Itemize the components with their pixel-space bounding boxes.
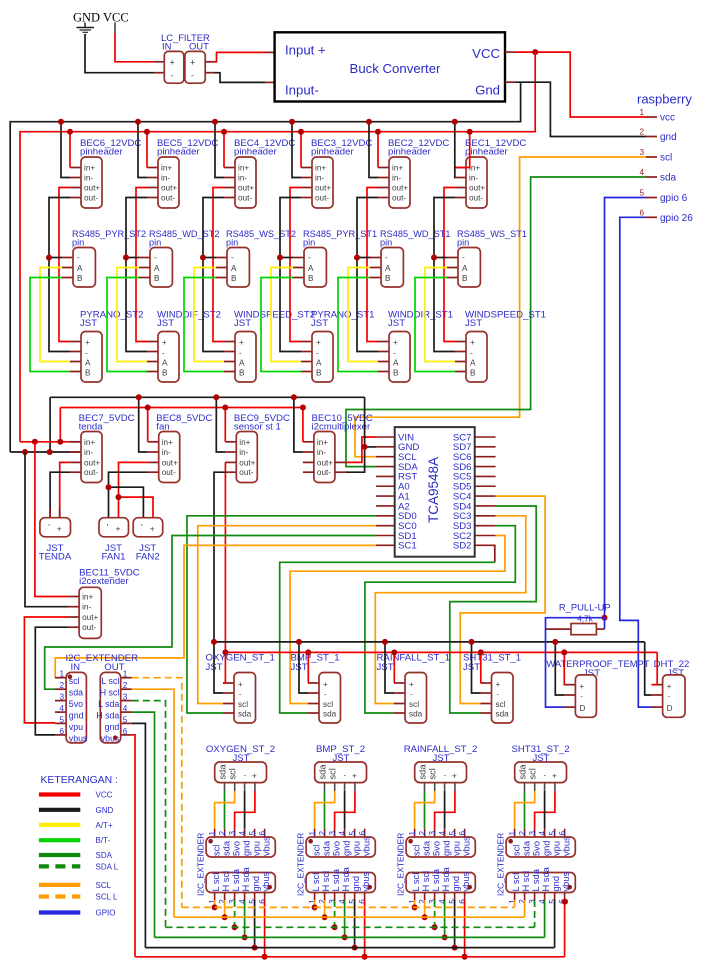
svg-text:vpu: vpu — [69, 722, 83, 732]
svg-text:H sda: H sda — [441, 866, 451, 891]
wire OUT2 pin 6 to bus — [364, 900, 366, 957]
TCA pin A2 — [376, 505, 395, 507]
wire BEC9 out+ down to ST1 red rail — [224, 462, 226, 652]
TCA pin SD0 — [376, 515, 395, 517]
svg-text:Gnd: Gnd — [475, 83, 500, 98]
svg-text:5: 5 — [348, 831, 357, 836]
svg-text:6: 6 — [558, 831, 567, 836]
IN1 pin 4 stub — [244, 829, 246, 837]
wire SHT31_ST_2 - black to IN4 pin4 gnd — [544, 791, 546, 829]
svg-text:B: B — [239, 368, 245, 377]
black rail ST1 — [214, 641, 645, 643]
svg-text:out-: out- — [84, 468, 98, 477]
svg-text:pin: pin — [226, 238, 238, 248]
wire B (green) RS485_WS_ST2 to JST B — [184, 278, 224, 372]
wire OUT1 pin 5 to bus — [254, 900, 256, 948]
OUT4 pin 4 stub — [544, 893, 546, 902]
wire RAINFALL_ST_2 scl orange to IN3 pin1 — [415, 791, 435, 829]
wire OXYGEN_ST_2 + red to IN1 pin3 5vo — [235, 791, 255, 829]
svg-text:pinheader: pinheader — [311, 147, 354, 158]
wire out- BEC3_12VDC to RS485 - and JST - — [280, 198, 301, 352]
svg-text:H sda: H sda — [341, 866, 351, 891]
OUT3 pin 2 stub — [424, 893, 426, 902]
svg-text:SD2: SD2 — [453, 541, 472, 552]
wire far-left red to BEC7 in+ — [20, 441, 70, 443]
svg-text:out-: out- — [469, 194, 483, 203]
svg-text:Input-: Input- — [285, 83, 319, 98]
svg-text:scl: scl — [328, 768, 338, 779]
svg-text:IN: IN — [162, 41, 171, 52]
legend row SDA — [39, 853, 80, 857]
wire OUT3 pin 5 to bus — [454, 900, 456, 948]
wire BEC8 out- to JST FAN1/FAN2 gnd — [109, 472, 148, 518]
svg-text:1: 1 — [208, 831, 217, 836]
lead RAINFALL_ST_2 pin x=454.9 — [454, 783, 456, 792]
svg-text:-: - — [191, 71, 194, 80]
lead OXYGEN_ST_2 pin x=244.6 — [244, 783, 246, 792]
svg-text:A: A — [239, 358, 245, 367]
svg-text:3: 3 — [328, 899, 337, 904]
wire OUT2 pin 5 to bus — [354, 900, 356, 948]
svg-text:vpu: vpu — [251, 841, 261, 856]
wire OUT4 pin 6 to bus — [564, 900, 566, 957]
legend row A/T+ — [39, 823, 80, 827]
svg-text:gnd: gnd — [241, 840, 251, 856]
svg-text:H sda: H sda — [241, 866, 251, 891]
extender OUT pin 3 L sda — [121, 700, 132, 702]
wire OUT2 pin 1 to bus — [314, 900, 316, 907]
svg-text:I2C_EXTENDER: I2C_EXTENDER — [495, 833, 505, 896]
wire A (yellow) RS485_PYR_ST2 to JST A — [40, 268, 70, 362]
svg-text:-: - — [154, 253, 157, 262]
svg-text:+: + — [393, 338, 398, 347]
OUT4 pin 1 stub — [514, 893, 516, 902]
wire SD3 green to RAINFALL_ST_1 sda — [365, 526, 515, 713]
wire OUT4 pin 1 to bus — [514, 900, 516, 907]
svg-text:1: 1 — [59, 670, 64, 679]
OUT1 pin 1 stub — [214, 893, 216, 902]
wire BMP_ST_2 + red to IN2 pin3 5vo — [335, 791, 355, 829]
wire OUT1 pin 3 to bus — [234, 900, 236, 927]
svg-text:pinheader: pinheader — [234, 147, 277, 158]
wire in- drop row4 x=236.3 — [216, 397, 225, 452]
IN4 pin 4 stub — [544, 829, 546, 837]
svg-text:R_PULL-UP: R_PULL-UP — [559, 602, 611, 613]
IN2 pin 3 stub — [334, 829, 336, 837]
wire A (yellow) RS485_WS_ST1 to JST A — [425, 268, 455, 362]
svg-text:H scl: H scl — [321, 871, 331, 892]
svg-text:-: - — [393, 349, 396, 358]
svg-text:out+: out+ — [315, 184, 331, 193]
svg-text:gnd: gnd — [551, 876, 561, 892]
wire gnd branch down to black bus row1 — [10, 82, 520, 452]
wire GND to LC_FILTER IN- — [85, 35, 154, 73]
wire in- BEC2_12VDC — [369, 122, 378, 178]
legend row GPIO — [39, 910, 80, 914]
TCA pin SD4 — [475, 505, 496, 507]
wire + red drop OXYGEN_ST_1 — [223, 652, 225, 683]
svg-text:+: + — [552, 771, 557, 781]
wire B (green) RS485_WD_ST2 to JST B — [107, 278, 147, 372]
svg-text:pin: pin — [303, 238, 315, 248]
OUT2 pin 5 stub — [354, 893, 356, 902]
svg-text:1: 1 — [508, 831, 517, 836]
svg-text:pinheader: pinheader — [80, 147, 123, 158]
lead BMP_ST_2 pin x=354.9 — [354, 783, 356, 792]
svg-text:6: 6 — [123, 727, 128, 736]
svg-text:L scl: L scl — [211, 873, 221, 892]
svg-text:4: 4 — [639, 168, 644, 177]
wire raspberry gpio6 (blue) down to pullup/waterproof D — [605, 198, 647, 618]
wire BMP_ST_2 sda green to IN2 pin2 — [324, 791, 326, 829]
svg-text:4: 4 — [59, 704, 64, 713]
svg-text:2: 2 — [639, 128, 644, 137]
svg-text:gnd: gnd — [341, 840, 351, 856]
wire OUT3 pin 4 to bus — [444, 900, 446, 937]
IN3 pin 2 stub — [424, 829, 426, 837]
svg-text:+: + — [352, 771, 357, 781]
wire out- BEC6_12VDC to RS485 - and JST - — [49, 198, 70, 352]
IN2 pin 4 stub — [344, 829, 346, 837]
wire out+ BEC4_12VDC to JST + — [213, 188, 224, 342]
svg-text:+: + — [409, 680, 414, 689]
svg-text:L sda: L sda — [531, 868, 541, 891]
wire A (yellow) RS485_WD_ST1 to JST A — [348, 268, 378, 362]
wire BEC8 out+ to JST FAN1/FAN2 + — [119, 462, 148, 517]
svg-text:5: 5 — [248, 831, 257, 836]
svg-text:H scl: H scl — [521, 871, 531, 892]
wire gpio6 blue branch to waterproof D — [602, 615, 608, 621]
svg-text:5vo: 5vo — [69, 699, 83, 709]
lead RAINFALL_ST_2 pin x=444.6 — [444, 783, 446, 792]
svg-text:gnd: gnd — [451, 876, 461, 892]
wire OUT3 pin 2 to bus — [424, 900, 426, 917]
svg-text:scl: scl — [211, 845, 221, 856]
svg-text:out-: out- — [84, 194, 98, 203]
OUT4 pin 6 stub — [564, 893, 566, 902]
svg-text:4: 4 — [338, 831, 347, 836]
svg-text:4: 4 — [238, 899, 247, 904]
svg-text:6: 6 — [258, 831, 267, 836]
svg-text:5: 5 — [639, 189, 644, 198]
connector JST TENDA — [49, 508, 51, 518]
svg-text:4: 4 — [538, 831, 547, 836]
svg-text:scl: scl — [411, 845, 421, 856]
svg-text:+: + — [316, 338, 321, 347]
svg-text:sda: sda — [409, 710, 423, 719]
svg-text:vpu: vpu — [351, 841, 361, 856]
lead RAINFALL_ST_2 pin x=434.7 — [434, 783, 436, 792]
IN1 pin 6 stub — [264, 829, 266, 837]
wire raspberry sda (green) to TCA SDA — [346, 177, 646, 467]
TCA pin A0 — [376, 485, 395, 487]
wire A (yellow) RS485_PYR_ST1 to JST A — [271, 268, 301, 362]
svg-text:B: B — [77, 274, 83, 283]
svg-text:A: A — [85, 358, 91, 367]
OUT2 pin 6 stub — [364, 893, 366, 902]
svg-text:+: + — [162, 338, 167, 347]
TCA pin SD1 — [376, 535, 395, 537]
legend row SCL L — [39, 894, 80, 898]
svg-text:in-: in- — [315, 174, 324, 183]
svg-text:gpio 26: gpio 26 — [660, 213, 693, 224]
TCA pin SC2 — [475, 535, 496, 537]
svg-text:FAN1: FAN1 — [102, 552, 126, 563]
raspberry pin 3 scl — [646, 156, 657, 158]
wire LC_FILTER OUT- to Buck Input- — [215, 73, 266, 83]
wire in- BEC4_12VDC — [215, 122, 224, 178]
red bus row4 — [60, 407, 303, 409]
svg-text:GND: GND — [96, 806, 114, 815]
lead SHT31_ST_2 pin x=554.9 — [554, 783, 556, 792]
IN2 pin 6 stub — [364, 829, 366, 837]
svg-text:gnd: gnd — [541, 840, 551, 856]
svg-text:in+: in+ — [161, 164, 172, 173]
IN1 pin 1 stub — [214, 829, 216, 837]
wire OUT1 pin 6 to bus — [264, 900, 266, 957]
OUT4 pin 5 stub — [554, 893, 556, 902]
wire + red drop BMP_ST_1 — [307, 652, 309, 683]
svg-text:in+: in+ — [84, 438, 95, 447]
svg-text:2: 2 — [518, 899, 527, 904]
extender OUT pin 1 L scl — [121, 677, 132, 679]
extender IN pin 5 vpu — [55, 722, 66, 724]
OUT1 pin 6 stub — [264, 893, 266, 902]
TCA pin SD5 — [475, 485, 496, 487]
wire far-left black to BEC7 in- — [10, 451, 70, 453]
riser red bus row4 to BEC7 in+ line — [59, 408, 61, 442]
riser black bus row4 to BEC7 in- line — [49, 397, 51, 452]
svg-text:5vo: 5vo — [231, 841, 241, 856]
wire - black drop BMP_ST_1 — [299, 642, 308, 693]
wire - black drop RAINFALL_ST_1 — [385, 642, 394, 693]
svg-text:D: D — [667, 704, 673, 713]
svg-text:JST: JST — [157, 318, 174, 329]
TCA pin SDA — [376, 466, 395, 468]
svg-text:vbus: vbus — [261, 836, 271, 856]
svg-text:-: - — [470, 349, 473, 358]
extender IN pin 1 scl — [55, 677, 66, 679]
IN3 pin 5 stub — [454, 829, 456, 837]
OUT2 pin 3 stub — [334, 893, 336, 902]
wire DHT + from red rail end — [652, 652, 658, 684]
wire OUT3 pin 6 to bus — [464, 900, 466, 957]
svg-text:2: 2 — [318, 831, 327, 836]
OUT3 pin 5 stub — [454, 893, 456, 902]
svg-text:IN: IN — [71, 662, 81, 673]
wire + red drop RAINFALL_ST_1 — [393, 652, 395, 683]
svg-text:+: + — [323, 680, 328, 689]
svg-text:in+: in+ — [162, 438, 173, 447]
svg-text:5: 5 — [348, 899, 357, 904]
svg-text:1: 1 — [123, 670, 128, 679]
svg-text:sda: sda — [238, 710, 252, 719]
svg-text:scl: scl — [496, 700, 506, 709]
svg-text:pinheader: pinheader — [157, 147, 200, 158]
svg-text:gnd: gnd — [441, 840, 451, 856]
svg-text:2: 2 — [59, 681, 64, 690]
OUT3 pin 6 stub — [464, 893, 466, 902]
extender IN pin 6 vbus — [55, 734, 66, 736]
IN3 pin 3 stub — [434, 829, 436, 837]
wire waterproof + from red rail — [563, 652, 565, 684]
legend row SDA L — [39, 864, 80, 868]
bus L scl dashed orange — [182, 906, 515, 908]
svg-text:TENDA: TENDA — [39, 552, 72, 563]
wire BEC9 out- down to ST1 black rail — [214, 472, 225, 642]
wire out- BEC2_12VDC to RS485 - and JST - — [357, 198, 378, 352]
OUT2 pin 4 stub — [344, 893, 346, 902]
svg-text:B: B — [231, 274, 237, 283]
svg-text:3: 3 — [328, 831, 337, 836]
svg-text:gnd: gnd — [69, 711, 84, 721]
svg-text:pin: pin — [72, 238, 84, 248]
wire RAINFALL_ST_2 + red to IN3 pin3 5vo — [435, 791, 455, 829]
OUT2 pin 1 stub — [314, 893, 316, 902]
extender OUT pin 2 H scl — [121, 688, 132, 690]
svg-text:+: + — [190, 58, 195, 68]
svg-text:sda: sda — [218, 764, 228, 780]
IN4 pin 5 stub — [554, 829, 556, 837]
wire Buck VCC out — [505, 51, 515, 53]
svg-text:5: 5 — [123, 715, 128, 724]
svg-text:3: 3 — [528, 831, 537, 836]
svg-text:in+: in+ — [469, 164, 480, 173]
svg-text:in-: in- — [239, 448, 248, 457]
wire BEC10 out+ to TCA VIN — [335, 461, 346, 463]
wire OXYGEN_ST_2 scl orange to IN1 pin1 — [215, 791, 235, 829]
svg-text:SDA: SDA — [96, 851, 113, 860]
svg-text:scl: scl — [511, 845, 521, 856]
svg-text:-: - — [462, 253, 465, 262]
TCA pin SD7 — [475, 446, 496, 448]
svg-text:out-: out- — [392, 194, 406, 203]
OUT2 pin 2 stub — [324, 893, 326, 902]
svg-text:6: 6 — [458, 899, 467, 904]
OUT3 pin 4 stub — [444, 893, 446, 902]
svg-text:4: 4 — [438, 899, 447, 904]
legend row VCC — [39, 792, 80, 796]
svg-text:B: B — [393, 368, 399, 377]
wire B (green) RS485_PYR_ST1 to JST B — [261, 278, 301, 372]
wire - black drop SHT31_ST_1 — [472, 642, 481, 693]
lead OXYGEN_ST_2 pin x=254.9 — [254, 783, 256, 792]
bus gnd black — [145, 947, 554, 949]
OUT1 pin 4 stub — [244, 893, 246, 902]
wire in- BEC5_12VDC — [138, 122, 147, 178]
svg-text:vbus: vbus — [561, 836, 571, 856]
svg-text:1: 1 — [408, 899, 417, 904]
svg-text:A/T+: A/T+ — [96, 821, 113, 830]
svg-text:SDA L: SDA L — [96, 862, 119, 871]
svg-text:in-: in- — [238, 174, 247, 183]
wire SC0 orange to OXYGEN_ST_1 scl — [198, 526, 376, 704]
svg-text:in+: in+ — [238, 164, 249, 173]
svg-text:out+: out+ — [161, 184, 177, 193]
wire OXYGEN_ST_2 sda green to IN1 pin2 — [224, 791, 226, 829]
svg-text:-: - — [239, 349, 242, 358]
svg-text:vbus: vbus — [461, 836, 471, 856]
svg-text:B: B — [316, 368, 322, 377]
svg-text:L sda: L sda — [331, 868, 341, 891]
wire out- BEC1_12VDC to RS485 - and JST - — [434, 198, 455, 352]
svg-text:2: 2 — [218, 899, 227, 904]
wire - black drop OXYGEN_ST_1 — [214, 642, 223, 693]
module U_BUCK Buck Converter — [275, 32, 505, 101]
IN2 pin 5 stub — [354, 829, 356, 837]
svg-text:4: 4 — [438, 831, 447, 836]
lead SHT31_ST_2 pin x=524.5 — [524, 783, 526, 792]
svg-text:3: 3 — [428, 899, 437, 904]
svg-text:pin: pin — [380, 238, 392, 248]
svg-text:SCL: SCL — [96, 881, 112, 890]
legend row SCL — [39, 883, 80, 887]
OUT3 pin 3 stub — [434, 893, 436, 902]
raspberry pin 1 vcc — [646, 116, 657, 118]
svg-text:2: 2 — [518, 831, 527, 836]
svg-text:pinheader: pinheader — [388, 147, 431, 158]
svg-text:-: - — [231, 253, 234, 262]
svg-text:H scl: H scl — [100, 688, 120, 698]
svg-text:scl: scl — [311, 845, 321, 856]
wire OUT1 pin 1 to bus — [214, 900, 216, 907]
extender IN pin 2 sda — [55, 688, 66, 690]
wire B (green) RS485_PYR_ST2 to JST B — [30, 278, 70, 372]
TCA pin A1 — [376, 495, 395, 497]
svg-text:in+: in+ — [82, 593, 93, 602]
wire BEC7 out- to JST TENDA gnd — [50, 472, 70, 518]
svg-text:-: - — [77, 253, 80, 262]
TCA pin SD6 — [475, 466, 496, 468]
svg-text:H sda: H sda — [541, 866, 551, 891]
svg-text:vcc: vcc — [660, 113, 675, 124]
TCA pin SC7 — [475, 436, 496, 438]
IN2 pin 1 stub — [314, 829, 316, 837]
legend row B/T- — [39, 838, 80, 842]
svg-text:B: B — [385, 274, 391, 283]
svg-text:6: 6 — [639, 208, 644, 217]
wire vcc branch down to red bus row1 — [20, 52, 535, 442]
svg-text:5vo: 5vo — [331, 841, 341, 856]
svg-text:B: B — [85, 368, 91, 377]
svg-text:A: A — [162, 358, 168, 367]
wire raspberry scl (orange) to TCA SCL — [355, 157, 646, 457]
IN4 pin 6 stub — [564, 829, 566, 837]
svg-text:scl: scl — [228, 768, 238, 779]
svg-text:sda: sda — [321, 840, 331, 856]
bus H sda green — [155, 936, 545, 938]
TCA pin SC4 — [475, 495, 496, 497]
svg-text:in-: in- — [162, 448, 171, 457]
svg-text:3: 3 — [123, 693, 128, 702]
wire in+ drop row4 x=236.3 — [224, 408, 226, 442]
wire SC3 orange to RAINFALL_ST_1 scl — [375, 516, 526, 704]
wire BEC11 in+ from row4 — [35, 442, 68, 597]
svg-text:raspberry: raspberry — [637, 92, 692, 107]
wire BEC11 in- from row4 — [25, 452, 68, 607]
svg-text:in-: in- — [317, 448, 326, 457]
svg-text:JST: JST — [465, 318, 482, 329]
extender IN pin 3 5vo — [55, 700, 66, 702]
svg-text:pinheader: pinheader — [465, 147, 508, 158]
svg-text:JST: JST — [388, 318, 405, 329]
svg-text:1: 1 — [208, 899, 217, 904]
connector JST FAN2 — [133, 518, 163, 537]
svg-text:A: A — [385, 264, 391, 273]
svg-text:+: + — [116, 524, 121, 534]
IN4 pin 1 stub — [514, 829, 516, 837]
wire in+ drop row4 x=158.7 — [147, 408, 149, 442]
